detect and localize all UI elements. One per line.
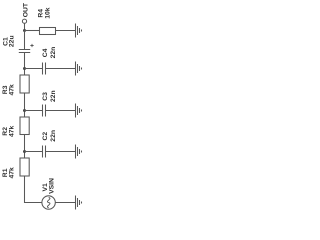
svg-text:10k: 10k: [44, 7, 51, 19]
ground (C2): [76, 145, 82, 159]
wire C4 to ground: [46, 68, 76, 70]
label C4 22n: [42, 47, 57, 59]
label C3 22n: [42, 90, 57, 102]
wire V1 to ground: [55, 202, 75, 204]
svg-text:C2: C2: [42, 132, 49, 141]
ground (R4): [76, 24, 82, 38]
label OUT: [23, 2, 30, 17]
source V1 (VSIN): [42, 196, 55, 209]
label R4 10k: [37, 7, 51, 19]
ground (C4): [76, 62, 82, 76]
svg-text:R4: R4: [37, 9, 44, 18]
resistor R4: [40, 28, 56, 35]
wire R4 to ground: [56, 30, 76, 32]
svg-text:47k: 47k: [8, 84, 15, 96]
svg-text:C4: C4: [42, 48, 49, 57]
svg-text:22u: 22u: [8, 35, 15, 47]
svg-text:22n: 22n: [50, 47, 57, 59]
svg-text:47k: 47k: [8, 125, 15, 137]
label C1 22u: [3, 35, 16, 47]
capacitor C3: [43, 105, 46, 117]
ground (V1): [76, 196, 82, 210]
node C junction: [23, 150, 26, 153]
capacitor C2: [43, 146, 46, 158]
node junction R4: [23, 29, 26, 32]
label R2 47k: [2, 125, 15, 137]
label R1 47k: [2, 167, 15, 179]
wire port to junction: [24, 23, 26, 30]
label R3 47k: [2, 84, 15, 96]
svg-text:C3: C3: [42, 92, 49, 101]
svg-text:47k: 47k: [8, 167, 15, 179]
wire C3 to ground: [46, 110, 76, 112]
node A junction: [23, 67, 26, 70]
wire junction to C1: [24, 31, 26, 50]
node B junction: [23, 109, 26, 112]
wire node A to C4: [25, 68, 43, 70]
wire C1 to node A: [24, 53, 26, 76]
svg-text:22n: 22n: [50, 90, 57, 102]
port OUT: [22, 19, 26, 23]
capacitor C1 (polarized): [19, 44, 34, 53]
wire R1 to corner to V1: [25, 176, 42, 203]
svg-text:22n: 22n: [50, 130, 57, 142]
svg-text:VSIN: VSIN: [48, 178, 55, 194]
wire node B to C3: [25, 110, 43, 112]
wire R2 to node C: [24, 135, 26, 159]
wire R3 to node B: [24, 93, 26, 117]
label V1 VSIN: [42, 178, 55, 194]
wire node C to C2: [25, 151, 43, 153]
label C2 22n: [42, 130, 57, 142]
capacitor C4: [43, 63, 46, 75]
resistor R3: [20, 75, 29, 93]
resistor R1: [20, 158, 29, 176]
resistor R2: [20, 117, 29, 135]
svg-text:OUT: OUT: [23, 2, 30, 17]
ground (C3): [76, 104, 82, 118]
wire junction to R4: [25, 30, 40, 32]
wire C2 to ground: [46, 151, 76, 153]
